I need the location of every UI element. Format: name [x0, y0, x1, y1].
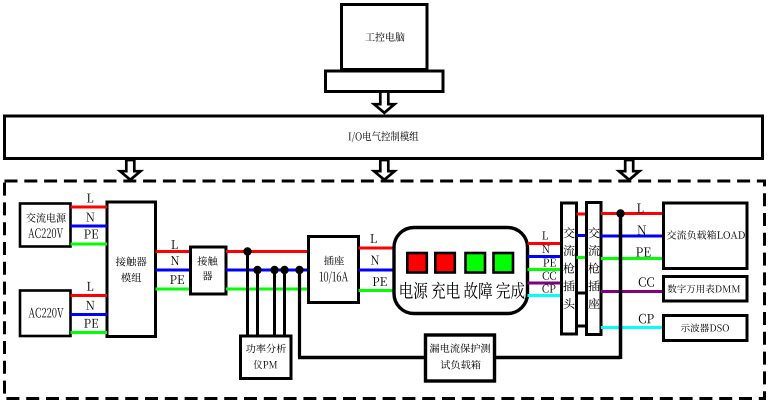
wire N contactor to socket (blue) — [226, 269, 309, 272]
stub N between gun boxes (blue) — [577, 234, 587, 237]
wire PE indicator to plug (green) — [528, 268, 562, 271]
label L indicator out — [542, 231, 548, 239]
hollow arrow PC to I/O module — [374, 92, 394, 113]
I/O electric control module box (I/O电气控制模组) — [5, 116, 763, 159]
wire N gun to LOAD (blue) — [601, 235, 664, 238]
charge indicator rounded box — [394, 228, 528, 314]
label PE indicator out — [543, 259, 555, 267]
wire CC indicator to plug (purple) — [528, 282, 562, 285]
AC load box (交流负载箱LOAD) — [664, 203, 748, 269]
label CC gun out — [639, 277, 654, 287]
junction dot N tap 1 — [253, 266, 261, 274]
wire PE contactor to socket (green) — [226, 288, 309, 291]
label L source1 — [87, 194, 93, 203]
label CP gun out — [639, 314, 654, 324]
wire PE source2 (green) — [71, 331, 108, 334]
wire N indicator to plug (blue) — [528, 255, 562, 258]
hollow arrow middle I/O to test area — [374, 160, 394, 180]
leak loop wire horizontal left — [298, 356, 426, 360]
wire CP indicator to plug (cyan) — [528, 294, 562, 297]
label CP indicator out — [542, 284, 555, 292]
tap wire N2 to PM — [273, 270, 276, 336]
label PE source2 — [84, 319, 98, 328]
wire PE socket to indicator (green) — [359, 289, 395, 292]
AC gun plug box (交流枪插头) — [562, 203, 577, 334]
leak loop wire down from N tap — [298, 270, 301, 358]
indicator lamp 完成 (green) — [494, 253, 514, 273]
label N module out — [171, 256, 179, 265]
label PE socket out — [373, 277, 387, 286]
wire L source2 (red) — [71, 294, 108, 297]
stub CP between gun boxes (black) — [577, 325, 587, 328]
label L gun out — [637, 204, 643, 213]
wire L socket to indicator (red) — [359, 247, 395, 250]
wire N socket to indicator (blue) — [359, 269, 395, 272]
wire L contactor to socket (red) — [226, 250, 309, 253]
wire L source1 (red) — [71, 206, 108, 209]
wire L module to contactor (red) — [156, 250, 191, 253]
label PE gun out — [636, 247, 650, 256]
stub PE between gun boxes (green) — [577, 256, 587, 259]
junction dot N tap 3 — [280, 266, 288, 274]
indicator labels 电源 充电 故障 完成 — [400, 282, 524, 299]
label N source2 — [86, 301, 94, 310]
label N indicator out — [542, 245, 549, 253]
wire PE module to contactor (green) — [156, 288, 191, 291]
wire CC gun to DMM (purple) — [601, 290, 664, 293]
indicator lamp 故障 (green) — [466, 253, 486, 273]
wire N source2 (blue) — [71, 313, 108, 316]
wire L gun to LOAD (red) — [601, 212, 664, 215]
oscilloscope box (示波器DSO) — [664, 316, 748, 341]
wire PE source1 (green) — [71, 243, 108, 246]
tap wire L to PM — [246, 252, 249, 337]
label L module out — [171, 240, 177, 249]
power analyzer box (功率分析仪PM) — [241, 336, 292, 379]
tap wire N1 to PM — [256, 270, 259, 336]
label N socket out — [371, 256, 379, 265]
label L source2 — [87, 282, 93, 291]
indicator lamp 充电 (red) — [435, 253, 455, 273]
stub L between gun boxes (red) — [577, 213, 587, 216]
PC base box — [326, 71, 444, 92]
AC source box 2 (AC220V) — [20, 291, 71, 337]
label PE source1 — [84, 230, 98, 239]
AC source box 1 (交流电源 AC220V) — [20, 204, 71, 247]
wire CP gun to DSO (cyan) — [601, 326, 664, 329]
junction dot L tap — [243, 247, 251, 255]
wire L indicator to plug (red) — [528, 242, 562, 245]
junction dot L leak loop — [616, 209, 624, 217]
indicator lamp 电源 (red) — [407, 253, 427, 273]
label CC indicator out — [543, 272, 556, 280]
contactor box (接触器) — [191, 247, 227, 294]
hollow arrow left I/O to test area — [120, 160, 140, 180]
contactor module box (接触器模组) — [107, 202, 156, 337]
wire N source1 (blue) — [71, 225, 108, 228]
label N source1 — [86, 213, 94, 222]
junction dot N tap 2 — [270, 266, 278, 274]
leak loop wire up to L junction — [619, 214, 623, 360]
label L socket out — [370, 234, 376, 243]
socket box (插座 10/16A) — [309, 237, 359, 303]
label PE module out — [170, 275, 184, 284]
industrial PC monitor box (工控电脑) — [342, 5, 428, 70]
wire PE gun to LOAD (green) — [601, 257, 664, 260]
tap wire N3 to PM — [283, 270, 286, 336]
stub CC between gun boxes (black) — [577, 292, 587, 295]
digital multimeter box (数字万用表DMM) — [664, 277, 748, 302]
leak loop wire horizontal right — [495, 356, 621, 360]
AC gun socket box (交流枪插座) — [587, 203, 602, 335]
wire N module to contactor (blue) — [156, 269, 191, 272]
junction dot N tap 4 (leak loop) — [295, 266, 303, 274]
leakage test load box (漏电流保护测试负载箱) — [426, 335, 495, 381]
hollow arrow right I/O to test area — [619, 160, 639, 180]
label N gun out — [638, 225, 647, 234]
dashed test-area boundary box — [5, 181, 765, 399]
